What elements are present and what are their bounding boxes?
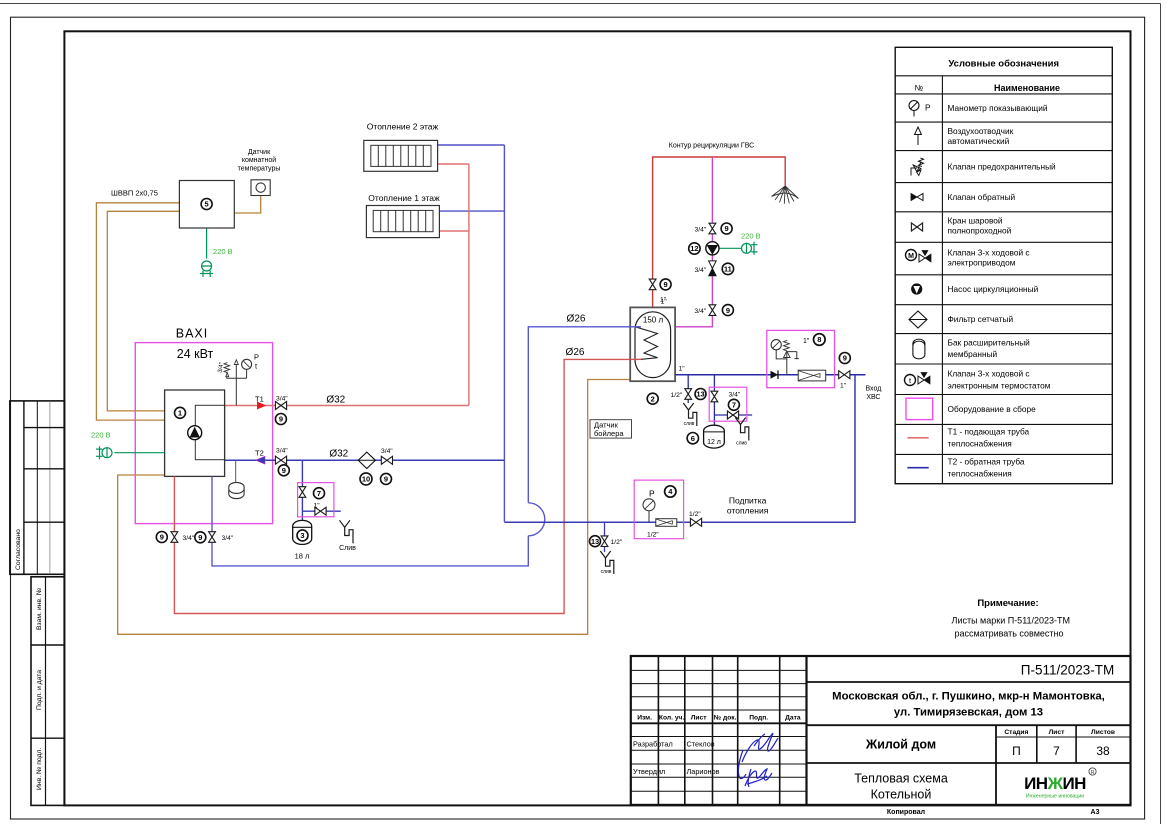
flow arrow T1 (257, 402, 267, 410)
legend symbol: 3-way motor valve (906, 250, 932, 263)
svg-text:ул. Тимирязевская, дом 13: ул. Тимирязевская, дом 13 (894, 707, 1043, 719)
svg-text:Бак расширительный: Бак расширительный (948, 338, 1031, 348)
svg-text:3/4": 3/4" (695, 267, 707, 274)
svg-text:1/2": 1/2" (689, 511, 701, 518)
svg-text:Подпитка: Подпитка (729, 495, 767, 505)
controller U5 box (179, 181, 234, 229)
svg-text:Датчик: Датчик (248, 149, 271, 156)
svg-text:Фильтр сетчатый: Фильтр сетчатый (948, 314, 1014, 324)
svg-text:Согласовано: Согласовано (15, 529, 22, 570)
legend symbol: air vent (915, 127, 922, 145)
svg-text:Изм.: Изм. (637, 714, 652, 721)
svg-text:отопления: отопления (727, 505, 769, 515)
svg-text:Клапан предохранительный: Клапан предохранительный (948, 162, 1057, 172)
svg-text:слив: слив (601, 569, 612, 575)
svg-text:Насос циркуляционный: Насос циркуляционный (948, 284, 1039, 294)
svg-text:Инв. № подл.: Инв. № подл. (36, 748, 43, 790)
svg-text:№: № (915, 84, 924, 93)
sheet edge top (0, 3, 1161, 5)
legend symbol: expansion tank (913, 339, 925, 359)
plug 220V GVS pump (742, 242, 758, 255)
node 9 T1 (275, 414, 286, 425)
svg-text:температуры: температуры (238, 165, 281, 172)
signature 1 (738, 733, 778, 779)
legend symbol: T1 red line (907, 437, 928, 439)
svg-text:3/4": 3/4" (695, 308, 707, 315)
svg-text:Лист: Лист (691, 714, 708, 721)
svg-text:3/4": 3/4" (276, 396, 288, 403)
svg-text:Взам. инв. №: Взам. инв. № (36, 588, 43, 630)
svg-text:220 В: 220 В (213, 247, 233, 256)
branch blue to 18L vessel (302, 460, 340, 520)
approval block grid (10, 401, 65, 574)
node 7 group (314, 488, 325, 499)
svg-text:3/4": 3/4" (729, 391, 741, 398)
svg-text:Инженерные инновации: Инженерные инновации (1026, 794, 1084, 800)
wire brown ShVVP #1: controller to boiler (96, 203, 179, 420)
svg-text:Наименование: Наименование (994, 83, 1060, 93)
svg-text:1/2": 1/2" (671, 392, 683, 399)
svg-text:Клапан обратный: Клапан обратный (948, 192, 1016, 202)
svg-text:7: 7 (1053, 744, 1060, 758)
svg-text:7: 7 (317, 489, 321, 498)
expansion tank 12L (704, 425, 725, 448)
svg-text:Т1 - подающая труба: Т1 - подающая труба (948, 427, 1030, 437)
svg-text:Воздухоотводчик: Воздухоотводчик (948, 126, 1014, 136)
svg-text:Ларионов: Ларионов (687, 767, 720, 776)
svg-text:ИНЖИН: ИНЖИН (1024, 774, 1086, 793)
svg-text:3/4": 3/4" (381, 448, 393, 455)
svg-text:Дата: Дата (785, 714, 801, 721)
expansion tank 18L (293, 520, 312, 544)
svg-text:теплоснабжения: теплоснабжения (948, 439, 1012, 449)
radiator floor 2 (364, 140, 438, 171)
svg-text:Утвердил: Утвердил (633, 767, 665, 776)
legend symbol: assembled equipment (magenta square) (906, 398, 933, 419)
shower head (772, 186, 799, 204)
node 1 (175, 407, 186, 418)
svg-text:Стадия: Стадия (1004, 729, 1028, 736)
valve cold main 1 inch (839, 371, 850, 379)
label boiler sensor (590, 420, 632, 438)
drain by 18L (340, 520, 354, 543)
pipe GVS magenta riser (675, 157, 712, 327)
svg-text:BAXI: BAXI (176, 327, 209, 341)
svg-text:220 В: 220 В (741, 232, 761, 241)
radiator floor1 heating circuit blue (439, 210, 504, 212)
svg-text:Копировал: Копировал (887, 809, 925, 816)
svg-text:Листов: Листов (1091, 729, 1115, 736)
svg-text:автоматический: автоматический (948, 136, 1010, 146)
valve 1inch on recirc riser (649, 279, 656, 290)
svg-text:Контур рециркуляции ГВС: Контур рециркуляции ГВС (669, 143, 754, 150)
svg-text:Отопление 1 этаж: Отопление 1 этаж (368, 193, 440, 203)
svg-text:комнатной: комнатной (242, 156, 276, 164)
box 4 makeup group magenta (634, 480, 683, 539)
strainer box 4 (656, 519, 677, 527)
pipe HW recirculation loop red (653, 157, 786, 307)
pump GVS recirculation (706, 242, 719, 255)
lower stamp cells (31, 577, 64, 806)
svg-text:рассматривать совместно: рассматривать совместно (954, 629, 1063, 639)
valve horiz in 3/4 group (727, 411, 738, 419)
pipe red boiler bottom to manifold (174, 359, 640, 613)
valve makeup drain (601, 536, 608, 547)
svg-text:9: 9 (843, 354, 847, 363)
svg-text:слив: слив (736, 441, 747, 447)
svg-text:Оборудование в сборе: Оборудование в сборе (948, 404, 1037, 414)
valve makeup 1/2 (690, 518, 701, 526)
svg-text:М: М (908, 253, 914, 260)
node 3 (297, 530, 308, 541)
svg-text:6: 6 (691, 434, 695, 443)
node 9 recirc riser (660, 279, 671, 290)
wire green 220V to boiler (114, 452, 164, 454)
boiler internal hydro box (195, 405, 224, 459)
valve horiz in 1inch group (315, 507, 326, 515)
node 12 (689, 243, 700, 254)
valve 13 (685, 389, 692, 400)
pipe T2 return blue (225, 459, 505, 461)
svg-text:P: P (925, 103, 931, 113)
svg-text:1": 1" (803, 338, 810, 345)
svg-text:1": 1" (661, 299, 668, 306)
svg-text:11: 11 (724, 265, 732, 274)
svg-text:теплоснабжения: теплоснабжения (948, 469, 1012, 479)
crossing hump blue over makeup line (528, 503, 545, 536)
svg-text:24 кВт: 24 кВт (177, 347, 214, 361)
boiler unit box (165, 390, 225, 476)
svg-text:электронным термостатом: электронным термостатом (948, 381, 1051, 391)
svg-text:мембранный: мембранный (948, 349, 998, 359)
svg-text:Клапан 3-х ходовой с: Клапан 3-х ходовой с (948, 369, 1030, 379)
legend symbol: strainer filter (909, 311, 927, 328)
pipe blue boiler bottom to manifold (212, 327, 640, 566)
svg-text:13: 13 (696, 390, 704, 399)
svg-text:7: 7 (732, 401, 736, 410)
valve T2 3/4 (275, 456, 286, 464)
legend symbol: gauge (909, 101, 931, 117)
svg-text:13: 13 (591, 537, 599, 546)
signature 2 (745, 769, 772, 787)
svg-text:38: 38 (1096, 744, 1110, 758)
logo INZHIN (1024, 768, 1096, 800)
svg-text:Клапан 3-х ходовой с: Клапан 3-х ходовой с (948, 247, 1030, 257)
drain under 13 (683, 403, 697, 426)
valve blue riser 3/4 (209, 532, 216, 543)
BAXI assembled equipment box magenta (135, 343, 272, 524)
valve bottom of GVS riser (709, 305, 716, 316)
svg-text:3: 3 (300, 531, 304, 540)
pipe cold water main (675, 374, 865, 376)
valve T1 3/4 (275, 402, 286, 410)
svg-text:P: P (649, 489, 655, 499)
safety group stems (227, 365, 247, 406)
svg-text:1/2": 1/2" (647, 532, 659, 539)
svg-text:1: 1 (178, 409, 182, 418)
svg-text:9: 9 (198, 533, 202, 542)
safety valve in box 8 (784, 340, 800, 374)
svg-text:Ø26: Ø26 (567, 314, 586, 325)
check valve on cold main (771, 371, 779, 380)
svg-text:Стеклов: Стеклов (687, 740, 715, 749)
svg-text:10: 10 (362, 475, 370, 484)
safety valve spring 3/4 (224, 363, 230, 377)
svg-text:Тепловая схема: Тепловая схема (854, 772, 948, 786)
svg-text:ШВВП 2х0,75: ШВВП 2х0,75 (111, 188, 158, 197)
node 7b (728, 399, 739, 410)
svg-text:T2: T2 (255, 449, 264, 458)
legend symbol: T2 blue line (907, 467, 928, 469)
plug 220V controller (200, 261, 213, 277)
svg-text:Кран шаровой: Кран шаровой (948, 216, 1003, 226)
svg-text:Ø32: Ø32 (329, 448, 348, 459)
gauge P t boiler (242, 359, 252, 369)
svg-text:П-511/2023-ТМ: П-511/2023-ТМ (1021, 663, 1115, 678)
radiator floor1 heating circuit red (439, 230, 469, 232)
valve top of GVS riser (709, 223, 716, 234)
legend symbol: ball valve (911, 223, 922, 231)
room temp sensor box (251, 180, 270, 196)
air vent auto (234, 360, 238, 365)
legend symbol: check valve (911, 194, 923, 201)
svg-text:Жилой дом: Жилой дом (865, 738, 936, 752)
svg-text:9: 9 (726, 306, 730, 315)
svg-text:1": 1" (840, 383, 847, 390)
pump boiler internal (188, 426, 202, 440)
svg-text:А3: А3 (1091, 809, 1100, 816)
svg-text:3/4": 3/4" (222, 535, 234, 542)
pipe stub red into tank (630, 358, 641, 360)
svg-text:1": 1" (679, 366, 686, 373)
svg-text:8: 8 (817, 335, 821, 344)
svg-text:Слив: Слив (339, 545, 356, 552)
node 9 right of filter (381, 473, 392, 484)
wire brown boiler sensor: boiler to tank (118, 380, 631, 635)
node 6 (687, 433, 698, 444)
svg-text:9: 9 (160, 533, 164, 542)
gauge box 4 (643, 499, 655, 523)
svg-text:Ø32: Ø32 (326, 394, 345, 405)
svg-text:ХВС: ХВС (866, 394, 880, 401)
node 9 GVS (721, 223, 732, 234)
svg-text:Отопление 2 этаж: Отопление 2 этаж (367, 122, 439, 132)
svg-text:Подп.: Подп. (749, 714, 768, 721)
expansion vessel stem (235, 460, 237, 483)
svg-text:1/2": 1/2" (611, 539, 623, 546)
svg-text:P: P (254, 353, 259, 362)
gauge in box 8 (771, 340, 787, 359)
expansion vessel boiler (229, 482, 244, 498)
branch to 12L vessel (714, 375, 752, 426)
node 10 (360, 473, 372, 485)
svg-text:Лист: Лист (1049, 729, 1066, 736)
flow arrow T2 (256, 456, 266, 464)
svg-text:9: 9 (725, 224, 729, 233)
svg-text:Кол. уч.: Кол. уч. (659, 714, 685, 721)
svg-text:T1: T1 (255, 395, 264, 404)
node 9 GVS bottom (722, 305, 733, 316)
svg-text:Вход: Вход (865, 386, 881, 393)
valve on T2 3/4 right of filter (381, 456, 392, 464)
svg-text:3/4": 3/4" (183, 535, 195, 542)
node 8 (814, 334, 826, 346)
svg-text:Условные обозначения: Условные обозначения (948, 59, 1059, 70)
box 8 water inlet group magenta (767, 330, 835, 387)
svg-text:9: 9 (664, 280, 668, 289)
svg-text:электроприводом: электроприводом (948, 258, 1016, 268)
svg-text:3/4": 3/4" (276, 448, 288, 455)
radiator floor 1 (366, 206, 439, 238)
svg-text:П: П (1012, 744, 1021, 758)
svg-text:Разработал: Разработал (633, 740, 673, 749)
node 4 (665, 486, 676, 497)
svg-text:полнопроходной: полнопроходной (948, 226, 1012, 236)
legend symbol: pump (911, 283, 922, 294)
svg-text:9: 9 (282, 466, 286, 475)
svg-text:3/4": 3/4" (695, 227, 707, 234)
svg-text:R: R (1091, 770, 1095, 776)
check valve GVS (709, 261, 717, 276)
strainer filter on T2 (358, 452, 375, 468)
node 11 (722, 263, 733, 274)
sheet edge right (1160, 4, 1162, 824)
svg-text:5: 5 (205, 200, 209, 209)
node 5 (201, 199, 212, 210)
valve in 3/4 group (711, 391, 718, 402)
svg-text:Московская обл., г. Пушкино, м: Московская обл., г. Пушкино, мкр-н Мамон… (832, 691, 1105, 703)
hot water tank 150L (630, 307, 675, 381)
node 13 (695, 389, 706, 400)
drain under makeup (600, 551, 614, 574)
svg-text:150 л: 150 л (643, 316, 664, 325)
wire green 220V to controller (206, 228, 208, 259)
svg-text:18 л: 18 л (295, 552, 310, 561)
strainer in box 8 (798, 370, 826, 381)
svg-text:Ø26: Ø26 (566, 347, 585, 358)
valve red riser 3/4 (171, 532, 178, 543)
node 9 cold main (839, 353, 850, 364)
branch drain makeup (604, 522, 606, 552)
svg-text:12: 12 (690, 244, 698, 253)
svg-text:бойлера: бойлера (594, 429, 624, 438)
plug 220V boiler (96, 446, 112, 459)
legend symbol: 3-way thermostat valve (905, 373, 931, 386)
svg-text:Примечание:: Примечание: (977, 598, 1038, 609)
wire brown: room sensor to controller (234, 196, 260, 214)
node 9 T2 (278, 465, 289, 476)
wire riser T2 blue from radiators (503, 145, 505, 522)
node 13 makeup (590, 536, 601, 547)
wire brown ShVVP #2: controller to boiler (107, 211, 179, 411)
svg-text:Листы марки П-511/2023-ТМ: Листы марки П-511/2023-ТМ (952, 616, 1071, 626)
pipe stub blue into tank (630, 326, 641, 328)
svg-text:220 В: 220 В (91, 431, 111, 440)
pipe T1 supply red (225, 405, 469, 407)
box 1inch group magenta (298, 483, 334, 517)
node 9 red drain valve (156, 532, 167, 543)
svg-text:слив: слив (684, 421, 695, 427)
drain by 12L (735, 418, 749, 441)
svg-text:Т2 - обратная труба: Т2 - обратная труба (948, 457, 1025, 467)
legend symbol: safety valve (911, 158, 924, 176)
svg-text:2: 2 (651, 394, 655, 403)
branch drain 13 (687, 375, 689, 403)
svg-text:Подп. и дата: Подп. и дата (36, 670, 43, 710)
tank coil (635, 327, 658, 360)
svg-text:Манометр показывающий: Манометр показывающий (948, 103, 1048, 113)
radiator floor2 heating circuit blue (438, 144, 505, 146)
pipe makeup water blue (504, 375, 855, 523)
wire riser T1 red to radiators (468, 164, 470, 405)
svg-text:Котельной: Котельной (871, 788, 932, 802)
radiator floor2 heating circuit red (438, 163, 469, 165)
box 3/4 group magenta (709, 387, 747, 421)
node 2 (647, 393, 658, 404)
svg-text:9: 9 (279, 415, 283, 424)
svg-text:№ док.: № док. (714, 714, 737, 721)
wire green 220V to GVS pump (719, 247, 741, 249)
svg-text:9: 9 (384, 475, 388, 484)
svg-text:12 л: 12 л (707, 439, 721, 446)
node 9 blue drain valve (195, 532, 206, 543)
valve vert in 1inch group (299, 487, 306, 498)
